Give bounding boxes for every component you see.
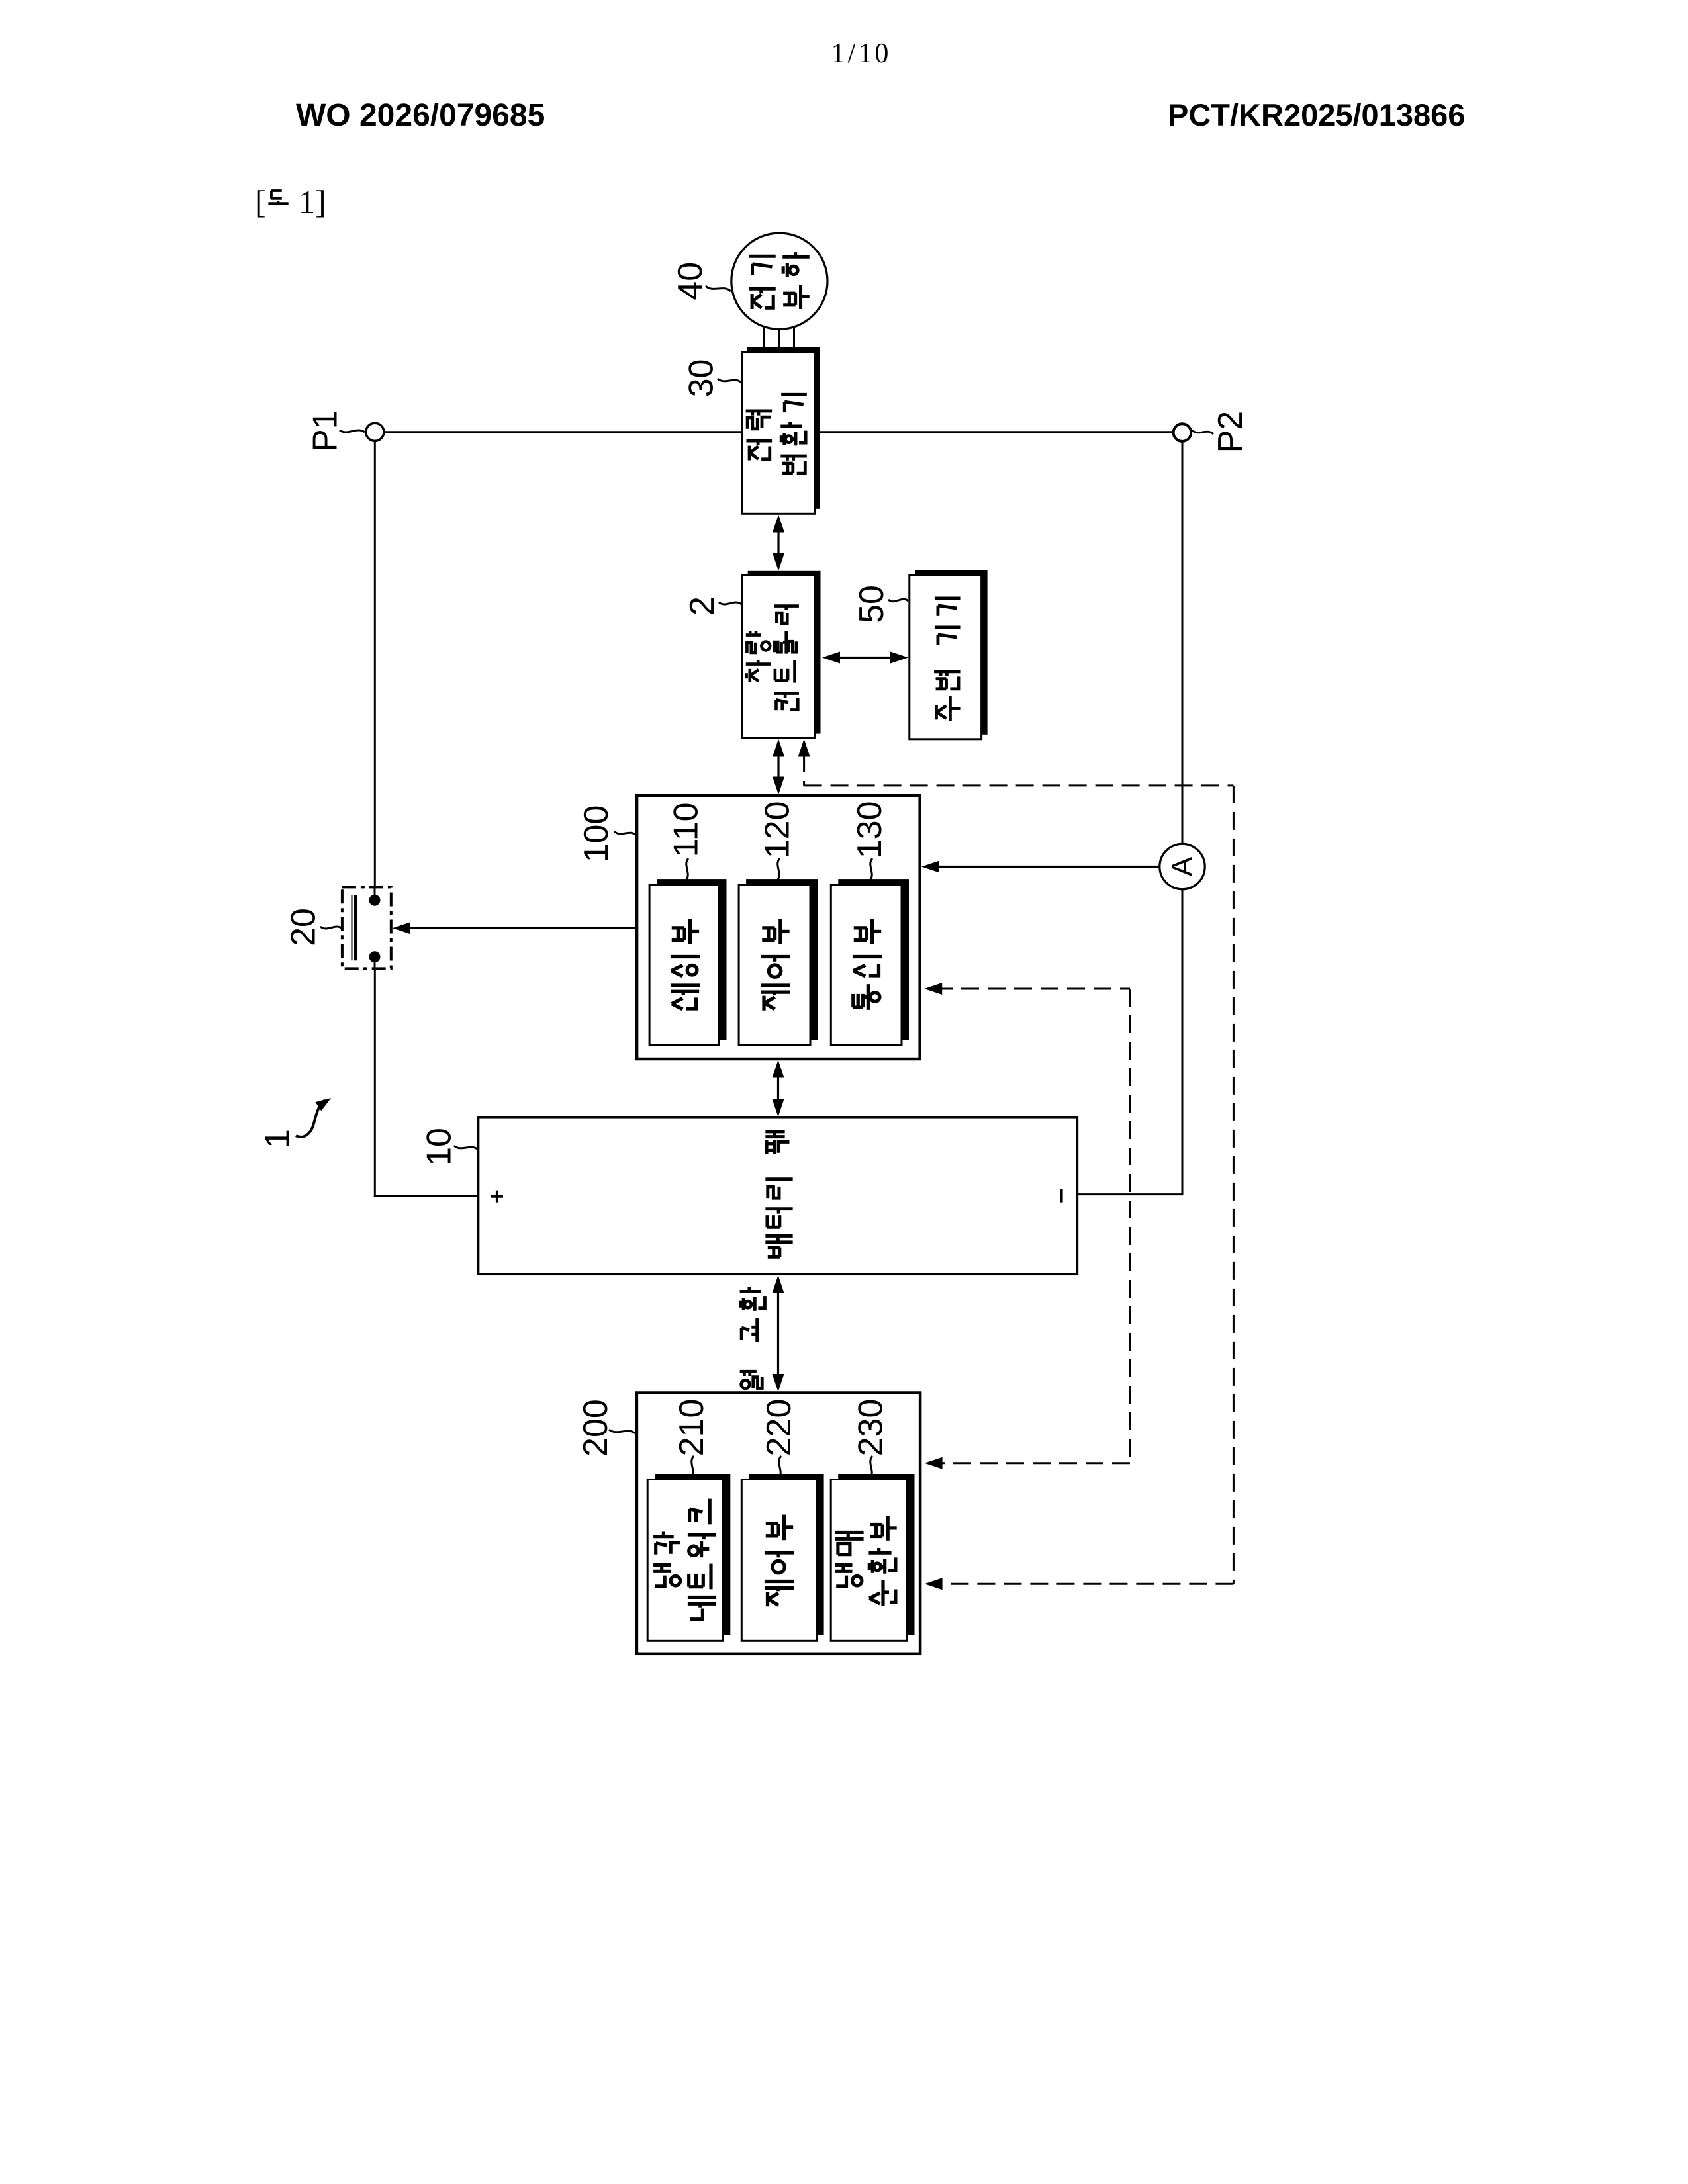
control unit 220 (제어부) [749, 1474, 823, 1635]
svg-text:100: 100 [577, 805, 616, 863]
svg-text:40: 40 [671, 262, 710, 300]
peripheral device 50 (주변 기기) [915, 570, 988, 735]
dashed rail down from BMS level [1129, 989, 1131, 1463]
svg-text:A: A [1166, 856, 1199, 876]
contactor blade lines [352, 895, 353, 961]
wire corner to battery + terminal [374, 1195, 479, 1197]
double arrow 2 to 100 [773, 739, 784, 757]
battery pack 10 (배터리 팩) [479, 1118, 1078, 1275]
double arrow 10 (battery) to 200 heat exchange [773, 1275, 784, 1293]
wire contactor 20 down to corner [374, 968, 376, 1197]
svg-text:30: 30 [682, 359, 720, 398]
arrow ammeter A to BMS 100 [933, 866, 1160, 868]
vehicle controller 2 (차량 컨트롤러) [748, 571, 821, 734]
power converter 30 (전력 변환기) [747, 347, 820, 509]
svg-text:1: 1 [259, 1129, 297, 1148]
svg-text:1]: 1] [299, 183, 326, 220]
arrow BMS 100 to contactor 20 [404, 927, 637, 929]
dashed into cooling block 200 upper [935, 1462, 1130, 1464]
svg-text:200: 200 [577, 1399, 615, 1457]
cooling block 200 [637, 1393, 920, 1654]
contactor contact dots [369, 895, 381, 906]
sensing unit 110 (센싱부) [657, 879, 726, 1040]
node P1 [366, 423, 384, 441]
connection lines 40 to 30 [763, 311, 765, 347]
svg-text:1/10: 1/10 [831, 38, 892, 69]
communication unit 130 (통신부) [838, 879, 909, 1040]
svg-text:50: 50 [853, 585, 891, 623]
svg-text:220: 220 [760, 1399, 798, 1457]
dashed line corner to right rail [804, 784, 1234, 786]
wire P1 down to contactor 20 [374, 441, 376, 887]
svg-text:PCT/KR2025/013866: PCT/KR2025/013866 [1168, 97, 1465, 132]
svg-text:P1: P1 [306, 410, 345, 452]
curved arrow for 1 [296, 1100, 325, 1137]
dashed right rail down [1233, 786, 1235, 1584]
BMS block 100 [637, 796, 920, 1059]
wire ammeter A up to P2 [1182, 441, 1184, 844]
dashed into cooling block 200 lower [935, 1583, 1233, 1585]
refrigerant circulation 230 (냉매 순환부) [838, 1474, 914, 1635]
svg-text:20: 20 [285, 908, 323, 946]
double arrow 2 to 50 [822, 652, 840, 664]
dashed arrow into BMS 100 right side [924, 983, 942, 995]
control unit 120 (제어부) [746, 879, 818, 1040]
double arrow 30 to 2 [773, 515, 784, 533]
wire power converter 30 to P2 [820, 431, 1174, 433]
electric load 40 (전기 부하) circle [731, 233, 827, 329]
svg-text:2: 2 [683, 596, 722, 615]
dashed line vehicle controller 2 to corner [798, 739, 810, 757]
svg-text:110: 110 [667, 802, 706, 857]
+ terminal [491, 1195, 503, 1198]
wire P1 to power converter 30 [383, 431, 741, 433]
ammeter A [1160, 844, 1205, 889]
svg-text:WO 2026/079685: WO 2026/079685 [296, 98, 545, 133]
- terminal [1060, 1189, 1063, 1203]
svg-text:[: [ [255, 183, 266, 220]
wire corner up to ammeter A [1182, 889, 1184, 1195]
cooling network 210 (냉각 네트워크) [655, 1474, 730, 1635]
svg-text:120: 120 [759, 801, 797, 859]
svg-text:210: 210 [673, 1399, 711, 1457]
double arrow 100 to 10 [773, 1060, 784, 1078]
svg-text:230: 230 [851, 1399, 890, 1457]
contactor 20 dash-dot box [342, 887, 391, 968]
svg-text:P2: P2 [1211, 411, 1250, 453]
svg-text:10: 10 [420, 1128, 458, 1166]
contactor wire stubs [374, 887, 376, 901]
svg-text:130: 130 [851, 801, 889, 859]
heat exchange label 열 교환 [740, 1287, 765, 1388]
node P2 [1174, 424, 1192, 441]
wire battery - terminal to corner below ammeter [1077, 1193, 1183, 1195]
